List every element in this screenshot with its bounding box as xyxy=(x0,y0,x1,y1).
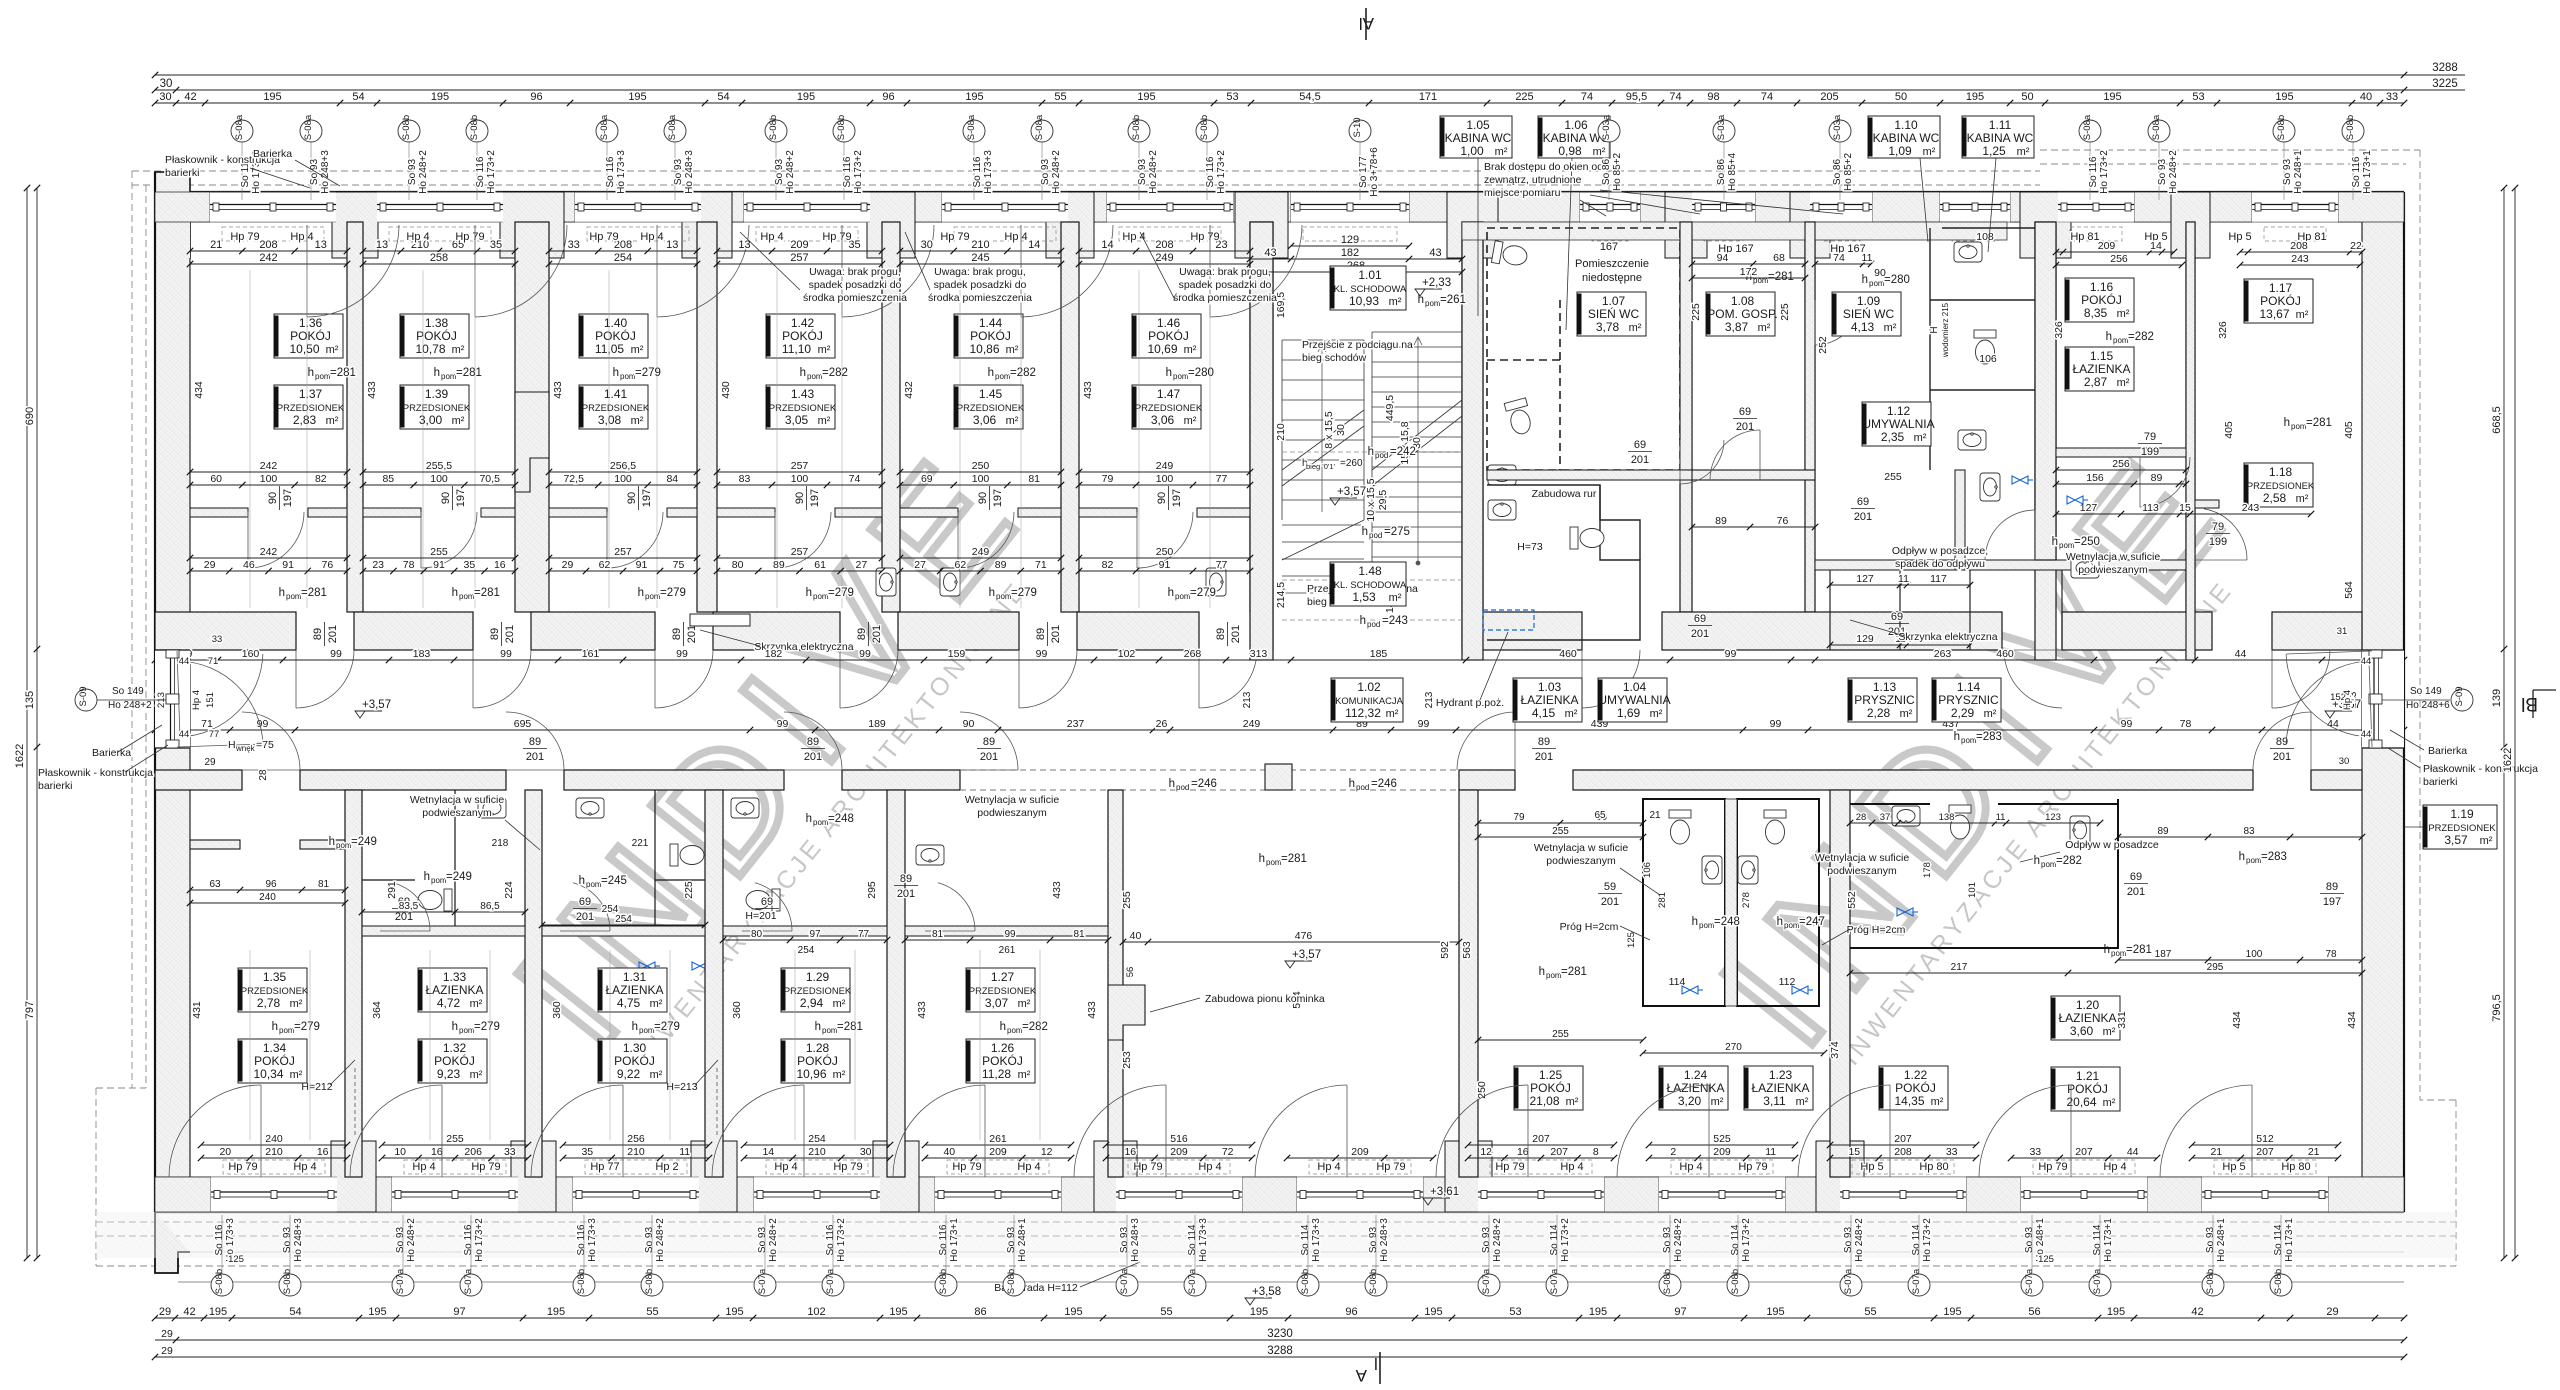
svg-text:=283: =283 xyxy=(1976,731,2002,743)
svg-text:=248: =248 xyxy=(1714,916,1740,928)
svg-text:h: h xyxy=(815,1021,821,1033)
label hpom=279 xyxy=(613,367,661,381)
lower cells walls (1.12 / showers) xyxy=(1815,560,2195,570)
svg-text:PRZEDSIONEK: PRZEDSIONEK xyxy=(769,402,837,413)
svg-text:S-07a: S-07a xyxy=(1843,1268,1854,1294)
svg-text:m²: m² xyxy=(1495,146,1508,158)
svg-text:313: 313 xyxy=(1250,648,1268,660)
svg-text:3,11: 3,11 xyxy=(1763,1094,1786,1108)
svg-text:So 116: So 116 xyxy=(463,1224,474,1255)
svg-text:2,83: 2,83 xyxy=(293,413,317,427)
dim low chain 2 xyxy=(360,559,518,574)
svg-text:331: 331 xyxy=(2116,1011,2128,1029)
svg-text:187: 187 xyxy=(2155,949,2172,960)
window W8 top xyxy=(1580,192,1640,241)
marker text So 116 Ho 173+1 xyxy=(2351,150,2373,194)
svg-text:ŁAZIENKA: ŁAZIENKA xyxy=(2058,1011,2116,1025)
svg-text:=282: =282 xyxy=(2128,331,2154,343)
svg-text:So 93: So 93 xyxy=(1006,1226,1017,1253)
chimney enclosure xyxy=(1108,985,1145,1040)
svg-text:97: 97 xyxy=(453,1306,465,1318)
svg-text:pom: pom xyxy=(2059,541,2075,550)
room label 1.14 PRYSZNIC xyxy=(1932,678,2001,722)
svg-text:m²: m² xyxy=(1900,708,1913,720)
svg-text:69: 69 xyxy=(1694,613,1706,625)
svg-text:SIEŃ WC: SIEŃ WC xyxy=(1588,306,1640,321)
svg-text:54,5: 54,5 xyxy=(1299,91,1320,103)
label hpom=279 xyxy=(452,1021,500,1035)
svg-text:So 93: So 93 xyxy=(1119,1226,1130,1253)
svg-text:1.16: 1.16 xyxy=(2090,280,2114,294)
svg-text:43: 43 xyxy=(1429,247,1441,259)
svg-text:90: 90 xyxy=(440,492,452,504)
door arc bottom window 4 xyxy=(712,1085,804,1177)
label hpom=248 xyxy=(1692,916,1740,930)
svg-text:28: 28 xyxy=(1856,812,1867,823)
partition 1.25area|1.22area xyxy=(1830,790,1850,1177)
dim low total 1 xyxy=(187,546,350,561)
svg-text:Wetnylacja w suficie: Wetnylacja w suficie xyxy=(410,794,505,806)
svg-text:Hp 79: Hp 79 xyxy=(2038,1161,2067,1173)
svg-text:Hp 4: Hp 4 xyxy=(1679,1161,1702,1173)
door top room to corridor xyxy=(1199,650,1257,708)
svg-text:100: 100 xyxy=(791,473,809,485)
svg-text:h: h xyxy=(2034,855,2040,867)
svg-text:So 114: So 114 xyxy=(1730,1224,1741,1255)
svg-text:1.39: 1.39 xyxy=(425,387,449,401)
svg-text:209: 209 xyxy=(790,239,808,251)
label hpom=282 xyxy=(988,367,1036,381)
svg-text:So 114: So 114 xyxy=(2092,1224,2103,1255)
svg-text:100: 100 xyxy=(972,473,990,485)
svg-text:pom: pom xyxy=(2291,422,2307,431)
svg-text:S-08b: S-08b xyxy=(1131,115,1142,140)
room label 1.12 UMYWALNIA xyxy=(1862,402,1935,446)
door 1.18 to corridor xyxy=(2272,650,2330,708)
svg-text:miejsce pomiaru: miejsce pomiaru xyxy=(1484,187,1561,199)
svg-text:Ho 173+2: Ho 173+2 xyxy=(486,150,497,194)
svg-text:Hp 79: Hp 79 xyxy=(1738,1161,1767,1173)
window W10 top xyxy=(1810,192,1872,241)
svg-text:h: h xyxy=(279,587,285,599)
svg-text:512: 512 xyxy=(2256,1133,2274,1145)
svg-text:12: 12 xyxy=(1480,1146,1492,1158)
svg-text:h: h xyxy=(638,587,644,599)
svg-text:2,29: 2,29 xyxy=(1951,706,1975,720)
svg-text:So 93: So 93 xyxy=(2024,1226,2035,1253)
svg-text:261: 261 xyxy=(999,945,1016,956)
svg-text:89: 89 xyxy=(983,736,995,748)
section marker S-08a xyxy=(2079,114,2101,142)
svg-text:796,5: 796,5 xyxy=(2491,994,2503,1022)
svg-text:53: 53 xyxy=(1509,1306,1521,1318)
svg-text:249: 249 xyxy=(1155,252,1173,264)
svg-text:Hp 79: Hp 79 xyxy=(455,231,484,243)
label hpom=281 xyxy=(308,367,356,381)
marker text So 93 Ho 248+2 xyxy=(1040,150,1062,194)
door top room to corridor xyxy=(473,650,531,708)
svg-text:201: 201 xyxy=(1601,896,1619,908)
svg-text:42: 42 xyxy=(183,1306,195,1318)
svg-text:90: 90 xyxy=(1874,267,1886,279)
svg-text:195: 195 xyxy=(2103,91,2121,103)
svg-text:374: 374 xyxy=(1829,1041,1841,1059)
svg-text:pom: pom xyxy=(813,818,829,827)
svg-text:80: 80 xyxy=(732,559,744,571)
svg-text:56: 56 xyxy=(1125,967,1136,978)
hydrant dashed blue box xyxy=(1483,610,1534,630)
svg-text:S-07a: S-07a xyxy=(1481,1268,1492,1294)
dims 1.17 win xyxy=(2237,240,2365,255)
svg-text:360: 360 xyxy=(731,1001,743,1019)
horizontal wall under 1.15 xyxy=(2056,448,2186,457)
svg-text:=279: =279 xyxy=(1011,587,1037,599)
vent symbol xyxy=(2067,496,2088,504)
svg-text:74: 74 xyxy=(849,473,861,485)
marker text So 114 Ho 173+1 xyxy=(2273,1218,2295,1262)
dims win bottom 1 xyxy=(198,1146,350,1161)
svg-text:m²: m² xyxy=(631,344,644,356)
svg-text:barierki: barierki xyxy=(38,780,72,792)
svg-text:197: 197 xyxy=(641,489,653,507)
svg-text:UMYWALNIA: UMYWALNIA xyxy=(1598,693,1670,707)
svg-text:barierki: barierki xyxy=(165,167,199,179)
svg-text:89: 89 xyxy=(671,628,683,640)
svg-text:449,5: 449,5 xyxy=(1384,395,1396,421)
svg-text:11: 11 xyxy=(679,1146,690,1158)
svg-text:44: 44 xyxy=(2127,1146,2139,1158)
balcony slab below bottom wall xyxy=(96,1212,2456,1258)
svg-text:74: 74 xyxy=(1833,252,1845,264)
svg-text:S-08b: S-08b xyxy=(2276,115,2287,140)
svg-text:1.29: 1.29 xyxy=(806,970,830,984)
svg-text:96: 96 xyxy=(530,91,542,103)
svg-text:89: 89 xyxy=(900,873,912,885)
svg-text:1.41: 1.41 xyxy=(604,387,628,401)
svg-text:195: 195 xyxy=(797,91,815,103)
svg-text:Hp 79: Hp 79 xyxy=(1190,231,1219,243)
svg-text:78: 78 xyxy=(2180,718,2192,730)
svg-text:1.36: 1.36 xyxy=(299,316,323,330)
wall under 1.08 xyxy=(1692,470,1815,480)
washbasin 1.29 xyxy=(731,798,759,818)
dims win top 4 xyxy=(714,239,885,254)
svg-text:101: 101 xyxy=(1967,882,1978,898)
svg-text:1.31: 1.31 xyxy=(623,970,647,984)
washbasin 1.31 xyxy=(576,798,604,818)
svg-text:h: h xyxy=(613,367,619,379)
marker text So 177 Ho 3+78+6 xyxy=(1358,147,1380,197)
section marker S-07a xyxy=(1478,1268,1500,1296)
svg-text:249: 249 xyxy=(1243,718,1261,730)
dims win bottom 9 xyxy=(1646,1146,1798,1161)
svg-text:Ho 248+6: Ho 248+6 xyxy=(2406,700,2450,711)
svg-text:1.22: 1.22 xyxy=(1904,1068,1928,1082)
room label 1.46 POKÓJ xyxy=(1132,314,1201,358)
svg-text:S-07a: S-07a xyxy=(1549,1268,1560,1294)
svg-text:195: 195 xyxy=(1943,1306,1961,1318)
partition wall top rooms 9 xyxy=(1805,222,1815,612)
svg-text:Ho 248+2: Ho 248+2 xyxy=(1051,150,1062,194)
svg-text:74: 74 xyxy=(1581,91,1593,103)
svg-text:So 149: So 149 xyxy=(2410,686,2442,697)
door top room to corridor xyxy=(655,650,713,708)
svg-text:Hp 5: Hp 5 xyxy=(2228,231,2251,243)
svg-text:h: h xyxy=(806,587,812,599)
balcony dashed outline top xyxy=(96,171,2040,1266)
level +3,57 stair xyxy=(1330,486,1366,505)
room label 1.01 KL. SCHODOWA xyxy=(1330,266,1407,310)
svg-text:10,78: 10,78 xyxy=(415,342,445,356)
svg-text:1,00: 1,00 xyxy=(1460,144,1484,158)
marker text So 114 Ho 173+2 xyxy=(1911,1218,1933,1262)
svg-text:195: 195 xyxy=(965,91,983,103)
label hpom=282 xyxy=(1000,1021,1048,1035)
partition 1.27|big room xyxy=(1108,790,1123,1177)
dim mid chain 4 xyxy=(714,473,885,488)
svg-text:209: 209 xyxy=(1351,1146,1369,1158)
svg-text:So 116: So 116 xyxy=(475,156,486,187)
marker text So 116 Ho 173+3 xyxy=(240,150,262,194)
washbasin 1.16 lower area xyxy=(2071,558,2099,578)
svg-text:151: 151 xyxy=(205,692,216,708)
svg-text:1,53: 1,53 xyxy=(1352,590,1376,604)
svg-text:405: 405 xyxy=(2343,421,2355,439)
svg-text:=282: =282 xyxy=(1022,1021,1048,1033)
svg-text:Hp 79: Hp 79 xyxy=(471,1161,500,1173)
door arc bottom window 3 xyxy=(531,1085,623,1177)
svg-text:210: 210 xyxy=(971,239,989,251)
svg-text:h: h xyxy=(1954,731,1960,743)
svg-text:pom: pom xyxy=(336,841,352,850)
svg-text:14: 14 xyxy=(1101,239,1113,251)
svg-text:4,72: 4,72 xyxy=(437,996,461,1010)
svg-text:217: 217 xyxy=(1951,962,1968,973)
svg-text:9,23: 9,23 xyxy=(437,1067,461,1081)
svg-text:89: 89 xyxy=(856,628,868,640)
svg-text:=250: =250 xyxy=(2074,536,2100,548)
partition wall top rooms 4 xyxy=(882,222,900,612)
svg-text:Ho 173+1: Ho 173+1 xyxy=(2284,1218,2295,1262)
section marker S-08b xyxy=(466,115,488,142)
room label 1.29 PRZEDSIONEK xyxy=(781,968,852,1012)
svg-text:S-08a: S-08a xyxy=(234,114,245,140)
svg-text:1.19: 1.19 xyxy=(2450,807,2474,821)
svg-text:123: 123 xyxy=(2045,812,2061,823)
svg-text:11,10: 11,10 xyxy=(782,342,811,356)
dim low chain 5 xyxy=(897,559,1064,574)
stair flight right (15 x 15.8) xyxy=(1372,332,1462,572)
svg-text:29: 29 xyxy=(161,1345,173,1357)
svg-text:208: 208 xyxy=(259,239,277,251)
dim 254 bath3 xyxy=(539,914,708,928)
svg-text:podwieszanym: podwieszanym xyxy=(1546,855,1616,867)
dim total bottom 12 xyxy=(2189,1133,2341,1148)
svg-text:Ho 248+1: Ho 248+1 xyxy=(2293,150,2304,194)
svg-text:81: 81 xyxy=(318,879,330,890)
svg-text:42: 42 xyxy=(184,91,196,103)
svg-text:98: 98 xyxy=(1707,91,1719,103)
svg-text:=282: =282 xyxy=(822,367,848,379)
svg-text:Hp 4: Hp 4 xyxy=(640,231,663,243)
svg-text:89: 89 xyxy=(1035,628,1047,640)
room label 1.26 POKÓJ xyxy=(966,1039,1035,1083)
svg-text:249: 249 xyxy=(1156,460,1174,472)
svg-text:S-08a: S-08a xyxy=(303,114,314,140)
svg-text:h: h xyxy=(308,367,314,379)
svg-text:69: 69 xyxy=(1739,406,1751,418)
svg-text:S-08b: S-08b xyxy=(1006,1269,1017,1294)
svg-text:11,05: 11,05 xyxy=(595,342,624,356)
svg-text:8: 8 xyxy=(1593,1146,1599,1158)
svg-text:89: 89 xyxy=(995,559,1007,571)
svg-text:h: h xyxy=(452,587,458,599)
svg-text:29: 29 xyxy=(2326,1306,2338,1318)
svg-text:10,34: 10,34 xyxy=(253,1067,283,1081)
svg-text:195: 195 xyxy=(263,91,281,103)
svg-text:Hp 4: Hp 4 xyxy=(191,690,202,710)
svg-text:256: 256 xyxy=(627,1133,645,1145)
svg-text:254: 254 xyxy=(615,914,632,925)
svg-text:h: h xyxy=(329,836,335,848)
svg-text:Odpływ w posadzce: Odpływ w posadzce xyxy=(2065,839,2159,851)
svg-text:237: 237 xyxy=(1067,718,1085,730)
section marker S-08a xyxy=(596,114,618,142)
svg-text:pom: pom xyxy=(1546,971,1562,980)
stair flight left (8 x 15.5) xyxy=(1282,340,1364,520)
svg-text:So 114: So 114 xyxy=(1911,1224,1922,1255)
svg-text:433: 433 xyxy=(1082,381,1094,399)
partition wall top rooms 3 xyxy=(697,222,717,612)
svg-text:1.23: 1.23 xyxy=(1769,1068,1793,1082)
washbasin cell top xyxy=(1954,242,1982,262)
svg-text:Hp 4: Hp 4 xyxy=(2103,1161,2126,1173)
marker text So 114 Ho 173+1 xyxy=(2092,1218,2114,1262)
svg-text:255: 255 xyxy=(1552,1029,1569,1040)
section marker S-08a xyxy=(963,114,985,142)
svg-text:268: 268 xyxy=(1184,648,1202,660)
svg-text:81: 81 xyxy=(1073,929,1085,940)
marker text So 116 Ho 173+1 xyxy=(938,1218,960,1262)
svg-text:252: 252 xyxy=(1817,336,1829,354)
svg-text:h: h xyxy=(1169,778,1175,790)
svg-text:99: 99 xyxy=(777,718,789,730)
svg-text:1.35: 1.35 xyxy=(263,970,287,984)
svg-text:=279: =279 xyxy=(294,1021,320,1033)
svg-text:pom: pom xyxy=(807,372,823,381)
svg-text:h: h xyxy=(988,367,994,379)
svg-text:Hp 4: Hp 4 xyxy=(406,231,429,243)
svg-text:S-07a: S-07a xyxy=(1911,1268,1922,1294)
svg-text:201: 201 xyxy=(686,625,698,643)
svg-text:pom: pom xyxy=(1425,299,1441,308)
svg-text:+2,33: +2,33 xyxy=(1422,277,1451,289)
svg-text:55: 55 xyxy=(1864,1306,1876,1318)
svg-text:H: H xyxy=(228,739,236,751)
svg-text:=242: =242 xyxy=(1390,446,1416,458)
svg-text:99: 99 xyxy=(1418,718,1430,730)
wall right of inaccessible room xyxy=(1680,222,1692,470)
partition 1.31|1.29 xyxy=(705,790,723,1177)
svg-text:245: 245 xyxy=(971,252,989,264)
room label 1.33 ŁAZIENKA xyxy=(418,968,487,1012)
svg-text:S-08a: S-08a xyxy=(2082,114,2093,140)
svg-text:pom: pom xyxy=(279,1026,295,1035)
svg-text:1.14: 1.14 xyxy=(1957,680,1981,694)
svg-text:S-09: S-09 xyxy=(2454,686,2465,706)
svg-text:213: 213 xyxy=(1424,691,1435,708)
label hpom=249 xyxy=(424,871,472,885)
svg-text:195: 195 xyxy=(2107,1306,2125,1318)
svg-text:pom: pom xyxy=(2111,949,2127,958)
svg-text:433: 433 xyxy=(366,381,378,399)
svg-text:69: 69 xyxy=(1891,611,1903,623)
svg-text:So 116: So 116 xyxy=(2088,156,2099,187)
svg-text:=281: =281 xyxy=(301,587,327,599)
svg-text:Uwaga: brak progu,: Uwaga: brak progu, xyxy=(1179,266,1271,278)
svg-text:Hp 4: Hp 4 xyxy=(1560,1161,1583,1173)
stair window dim xyxy=(1288,234,1412,249)
dim total bottom 10 xyxy=(1827,1133,1979,1148)
svg-text:m²: m² xyxy=(1593,146,1606,158)
svg-text:250: 250 xyxy=(1156,546,1174,558)
door arc bottom window 9 xyxy=(1617,1085,1709,1177)
room label 1.25 POKÓJ xyxy=(1514,1066,1583,1110)
svg-text:pom: pom xyxy=(315,372,331,381)
label hpod=275 xyxy=(1362,526,1410,540)
section marker S-07a xyxy=(754,1268,776,1296)
section marker S-08a xyxy=(664,114,686,142)
label hpom=249 xyxy=(329,836,377,850)
svg-text:0,98: 0,98 xyxy=(1558,144,1582,158)
svg-text:Przejście z podciągu na: Przejście z podciągu na xyxy=(1302,339,1413,351)
svg-text:197: 197 xyxy=(809,489,821,507)
label hpom=282 xyxy=(800,367,848,381)
svg-text:209: 209 xyxy=(1713,1146,1731,1158)
dim total bottom 1 xyxy=(198,1133,350,1148)
dim mid chain 1 xyxy=(187,473,350,488)
top exterior wall band xyxy=(155,192,2404,222)
corridor end window left (in outer wall) xyxy=(155,650,190,748)
svg-text:201: 201 xyxy=(1535,751,1553,763)
dim low total 2 xyxy=(360,546,518,561)
svg-text:POKÓJ: POKÓJ xyxy=(614,1053,655,1068)
washbasin 1.33 xyxy=(478,798,506,818)
door 1.13 area to corridor xyxy=(2004,650,2062,708)
svg-text:2: 2 xyxy=(1670,1146,1676,1158)
dims under 1.08 xyxy=(1689,515,1818,530)
svg-text:Ho 248+1: Ho 248+1 xyxy=(1017,1218,1028,1262)
svg-text:3,07: 3,07 xyxy=(985,996,1009,1010)
svg-text:So 149: So 149 xyxy=(112,686,144,697)
svg-text:pod: pod xyxy=(1367,620,1380,629)
room label 1.20 ŁAZIENKA xyxy=(2051,996,2120,1040)
svg-text:So 86: So 86 xyxy=(1716,158,1727,185)
door arc bottom window 1 xyxy=(169,1085,261,1177)
svg-text:S-07a: S-07a xyxy=(825,1268,836,1294)
svg-text:210: 210 xyxy=(627,1146,645,1158)
svg-text:spadek do odpływu: spadek do odpływu xyxy=(1895,558,1985,570)
section marker S-08b xyxy=(1659,1269,1681,1296)
deep wall band WC zone xyxy=(1462,222,2007,240)
dims right xyxy=(2115,826,2365,840)
label hpom=281 xyxy=(815,1021,863,1035)
label hpod=246 xyxy=(1169,778,1217,792)
dims hp167 xyxy=(1689,252,1808,267)
svg-text:pom: pom xyxy=(996,592,1012,601)
svg-text:75: 75 xyxy=(673,559,685,571)
svg-text:So 116: So 116 xyxy=(2351,156,2362,187)
